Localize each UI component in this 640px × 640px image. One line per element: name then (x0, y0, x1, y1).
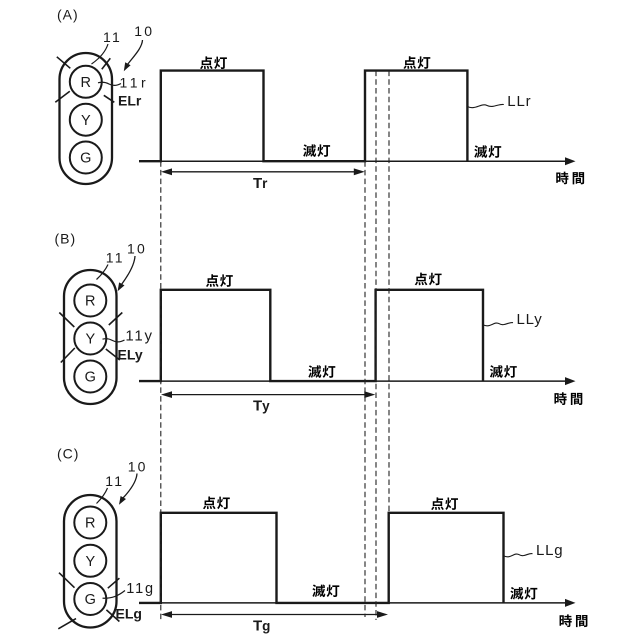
light emission rays around R lamp (A) (55, 57, 114, 103)
lamp G (A) (70, 142, 102, 174)
lamp Y (C) (74, 545, 106, 577)
dashed guide t1 (x=365, end of Tr) (364, 161, 366, 617)
svg-text:LLy: LLy (517, 311, 543, 328)
lamp G (C) (74, 583, 106, 615)
svg-text:LLr: LLr (507, 93, 531, 110)
waveform C: signal trace (low/high pulses) (139, 513, 504, 603)
period arrow Tr: double-headed (168, 171, 356, 173)
svg-text:G: G (80, 151, 91, 167)
axis A: thin time axis tail (139, 160, 566, 162)
waveform B: signal trace (low/high pulses) (139, 290, 483, 381)
svg-text:(C): (C) (57, 446, 79, 462)
label 滅灯 in gap (B) (308, 365, 335, 378)
label 滅灯 after pulse 2 (B) (490, 365, 517, 378)
label 点灯 over pulse 2 (A) (403, 56, 430, 69)
label 滅灯 in gap (C) (312, 584, 339, 597)
period arrow Tg: double-headed (168, 614, 379, 616)
leader squiggle to LLg (504, 554, 533, 557)
light emission rays around G lamp (C) (58, 573, 119, 629)
traffic light A: housing 10 (60, 53, 113, 184)
leader squiggle to LLy (483, 323, 513, 326)
lamp Y (A) (70, 104, 102, 136)
svg-text:R: R (81, 75, 91, 91)
svg-text:ELg: ELg (116, 606, 142, 622)
svg-text:10: 10 (127, 241, 147, 257)
leader from 11 to housing (C) (97, 488, 108, 504)
leader from 11g to G lamp (103, 591, 126, 599)
leader from 11 to housing (A) (92, 44, 109, 64)
svg-text:ELr: ELr (118, 93, 142, 109)
label 滅灯 after pulse 2 (C) (510, 587, 537, 600)
lamp Y (B) (74, 323, 106, 355)
light emission rays around Y lamp (B) (59, 313, 122, 363)
lamp R (B) (74, 285, 106, 317)
svg-text:10: 10 (128, 459, 148, 475)
svg-text:10: 10 (134, 23, 154, 39)
label 点灯 over pulse 2 (C) (431, 497, 458, 510)
label 点灯 over pulse 1 (A) (200, 56, 227, 69)
label 時間 (time) (A) (556, 172, 584, 185)
svg-text:R: R (85, 294, 95, 310)
svg-text:11: 11 (105, 473, 124, 489)
leader from 11r to R lamp (98, 82, 121, 85)
svg-text:ELy: ELy (118, 347, 143, 363)
traffic light C: housing 10 (64, 495, 117, 628)
axis A: arrowhead (565, 157, 576, 165)
svg-text:11r: 11r (120, 75, 150, 91)
svg-text:11: 11 (103, 29, 122, 45)
leader from 11 to housing (B) (97, 265, 109, 280)
label 時間 (time) (C) (560, 614, 588, 627)
svg-text:Tr: Tr (253, 175, 268, 192)
axis C: arrowhead (565, 599, 576, 607)
lamp R (A) (70, 66, 102, 98)
leader squiggle to LLr (467, 104, 503, 107)
period arrow Ty: double-headed (168, 394, 366, 396)
svg-text:Y: Y (81, 113, 91, 129)
svg-text:11y: 11y (125, 327, 153, 344)
label 時間 (time) (B) (554, 392, 582, 405)
curved arrow from 10 to housing (A) (128, 40, 143, 65)
label 点灯 over pulse 2 (B) (415, 273, 442, 286)
waveform A: signal trace (low/high pulses) (139, 71, 467, 162)
svg-text:(A): (A) (57, 7, 79, 23)
svg-text:G: G (85, 592, 96, 608)
svg-text:R: R (85, 516, 95, 532)
svg-text:G: G (85, 370, 96, 386)
curved arrow from 10 to housing (B) (122, 256, 136, 285)
lamp G (B) (74, 361, 106, 393)
lamp R (C) (74, 507, 106, 539)
svg-text:Ty: Ty (253, 398, 270, 415)
curved arrow from 10 to housing (C) (123, 474, 137, 499)
dashed guide t2 (x=376, end of Ty) (375, 71, 377, 620)
svg-text:Y: Y (85, 332, 95, 348)
svg-text:LLg: LLg (536, 542, 563, 559)
svg-text:(B): (B) (55, 231, 77, 247)
dashed guide t3 (x=389, end of Tg) (388, 71, 390, 513)
svg-text:Y: Y (85, 554, 95, 570)
leader from 11y to Y lamp (103, 339, 125, 342)
label 滅灯 after pulse 2 (A) (474, 145, 501, 158)
svg-text:11g: 11g (126, 581, 155, 597)
axis C: thin time axis tail (139, 602, 566, 604)
label 滅灯 in gap (A) (303, 144, 330, 157)
axis B: arrowhead (565, 377, 576, 385)
axis B: thin time axis tail (139, 380, 566, 382)
label 点灯 over pulse 1 (B) (206, 274, 233, 287)
dashed guide t0 (x=160.8) (160, 161, 162, 620)
traffic light B: housing 10 (64, 270, 117, 404)
label 点灯 over pulse 1 (C) (203, 497, 230, 510)
svg-text:11: 11 (106, 250, 125, 266)
svg-text:Tg: Tg (253, 618, 270, 635)
